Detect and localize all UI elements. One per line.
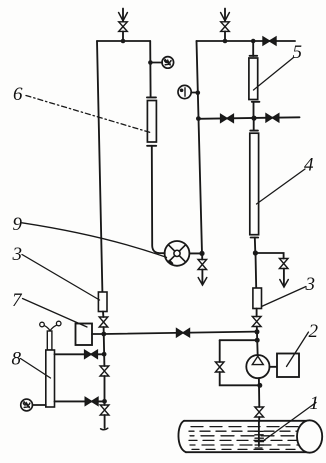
wire above rotameter 4 (253, 118, 255, 130)
wire below rotameter 4 (254, 238, 257, 254)
tank left cap (178, 421, 186, 452)
node box7 tap (101, 332, 106, 337)
svg-text:6: 6 (13, 84, 23, 105)
svg-text:2: 2 (309, 321, 319, 342)
wire pipe2 vent (201, 253, 203, 259)
wire box7 connector (92, 333, 104, 335)
wire left pipe upper (97, 41, 102, 292)
svg-text:3: 3 (12, 244, 23, 265)
rotameter 5 body (249, 58, 258, 100)
blower 9 spokes (168, 245, 185, 262)
tank right ellipse (297, 420, 322, 452)
valve pipe2 vent (198, 260, 207, 270)
svg-text:3: 3 (305, 274, 316, 295)
node pipe2 y118 tap (196, 116, 201, 121)
gauge 1 circle (162, 57, 174, 69)
leader 7 (23, 299, 88, 328)
gauge 2 marks (184, 88, 186, 96)
wire pump outlet (270, 366, 278, 368)
tank water hatching (189, 427, 301, 450)
wire right manifold (197, 40, 254, 42)
rotameter 4 top cap (250, 130, 258, 132)
valve left pipe V2 (100, 366, 109, 376)
leader 3 right (262, 287, 307, 307)
wire branch2 (55, 400, 105, 402)
wire inner-left pipe lower (152, 146, 165, 253)
blower 9 hub (174, 250, 180, 256)
strainer slots (255, 431, 264, 448)
tank bottom (186, 451, 308, 453)
box 2 (277, 354, 299, 378)
wire left pipe lower2 (104, 376, 106, 405)
rotameter 4 bottom cap (251, 237, 259, 239)
valve left pipe V3 (100, 405, 109, 415)
node branch2 tap (102, 399, 107, 404)
wire branch1 (55, 353, 104, 355)
valve branch1 (85, 350, 98, 358)
wire bypass bottom (220, 372, 260, 385)
wire drain branch lower (283, 269, 285, 287)
valve y118 left (221, 114, 234, 122)
valve inlet left (119, 22, 128, 32)
wire gauge2 connector (191, 92, 198, 94)
valve right column V (252, 317, 261, 327)
gauge handlebar circle left (40, 322, 45, 327)
tank top (184, 420, 309, 422)
wire bypass left (219, 340, 221, 362)
svg-text:7: 7 (12, 290, 23, 311)
wire gauge1 connector (150, 62, 162, 64)
node manifold right junction (251, 39, 256, 44)
leader 6 (26, 96, 152, 134)
svg-text:4: 4 (304, 155, 314, 176)
wire below rotameter 5 (253, 102, 255, 118)
wire left manifold (97, 40, 150, 42)
wire right column top (252, 41, 254, 56)
leader 2 (287, 332, 309, 367)
leader 3 left (22, 255, 100, 301)
wire below rotameter 3 right (256, 309, 258, 317)
box 7 (76, 324, 93, 346)
node branch1 tap (102, 352, 107, 357)
node drain branch junction (253, 250, 258, 255)
wire right column to pump (256, 327, 259, 357)
valve bypass (215, 362, 224, 372)
valve inlet right (221, 22, 230, 32)
rotameter 6 top cap (147, 96, 156, 98)
wire inlet right to manifold (224, 31, 226, 41)
node pump bottom junction (257, 383, 262, 388)
arrowhead inlet right (221, 13, 230, 21)
leader 9 (22, 223, 167, 258)
gauge 3 marks (23, 402, 29, 408)
leader 8 (21, 359, 51, 379)
wire left pipe end (104, 415, 106, 428)
arrowhead pipe2 vent (198, 278, 207, 286)
wire drain branch (255, 253, 283, 259)
wire inlet right stem (224, 9, 226, 22)
node gauge1 tap (148, 60, 153, 65)
blower 9 circle (165, 241, 190, 266)
manometer tube 8 body (46, 350, 55, 407)
wire gauge3 connector (33, 404, 46, 406)
blower 9 blade blob (170, 261, 173, 264)
rotameter 3 right body (253, 288, 262, 309)
wire bypass top (220, 339, 258, 341)
valve tank inlet (255, 407, 264, 417)
wire blower outlet (189, 252, 202, 254)
valve branch2 (85, 397, 98, 405)
valve left pipe V1 (99, 317, 108, 327)
gauge 1 marks (165, 59, 171, 65)
wire manifold right extension (253, 40, 295, 42)
manometer tube 8 neck (47, 331, 52, 350)
leader 5 (254, 58, 294, 91)
left pipe end serif (101, 428, 108, 430)
pump triangle (252, 356, 263, 364)
leader 1 (263, 403, 316, 442)
wire valve to tank (258, 417, 260, 422)
valve cross line (177, 329, 190, 337)
gauge 3 circle (21, 399, 33, 411)
rotameter 5 top cap (250, 55, 258, 57)
valve manifold extension (263, 37, 276, 45)
rotameter 6 bottom cap (147, 145, 156, 147)
node right inlet junction (223, 39, 228, 44)
wire right column mid (255, 253, 258, 288)
wire inner-left pipe upper (149, 41, 151, 97)
node blower outlet junction (199, 251, 204, 256)
wire y118 line (198, 117, 299, 119)
rotameter 5 bottom cap (252, 101, 260, 103)
rotameter 4 body (250, 133, 259, 235)
arrowhead drain branch (280, 280, 289, 288)
wire long cross line (104, 332, 257, 334)
node y118 junction (251, 116, 256, 121)
node bypass top junction (255, 338, 260, 343)
svg-text:1: 1 (310, 393, 320, 414)
arrowhead inlet left (119, 13, 128, 21)
svg-text:5: 5 (293, 42, 303, 63)
rotameter 3 left body (98, 292, 107, 312)
node cross line junction (255, 329, 260, 334)
wire below rotameter 3 left (102, 312, 104, 318)
wire pipe2 vent lower (201, 270, 203, 285)
gauge handlebar circle right (56, 321, 61, 326)
handlebar arms (44, 325, 56, 330)
svg-text:9: 9 (13, 214, 23, 235)
wire pipe2 (197, 41, 203, 253)
wire inlet left to manifold (122, 31, 124, 41)
valve y118 right (266, 114, 279, 122)
svg-text:8: 8 (12, 349, 22, 370)
valve drain branch (279, 259, 288, 269)
pump circle (246, 355, 269, 378)
rotameter 6 body (147, 101, 156, 143)
wire pump to tank (258, 378, 260, 407)
node junction left inlet (121, 39, 126, 44)
wire inlet left stem (122, 9, 124, 22)
gauge 2 circle (178, 85, 191, 98)
leader 4 (257, 169, 306, 204)
strainer pipe (258, 421, 260, 446)
wire left pipe lower (103, 327, 106, 366)
node gauge2 tap (196, 90, 201, 95)
